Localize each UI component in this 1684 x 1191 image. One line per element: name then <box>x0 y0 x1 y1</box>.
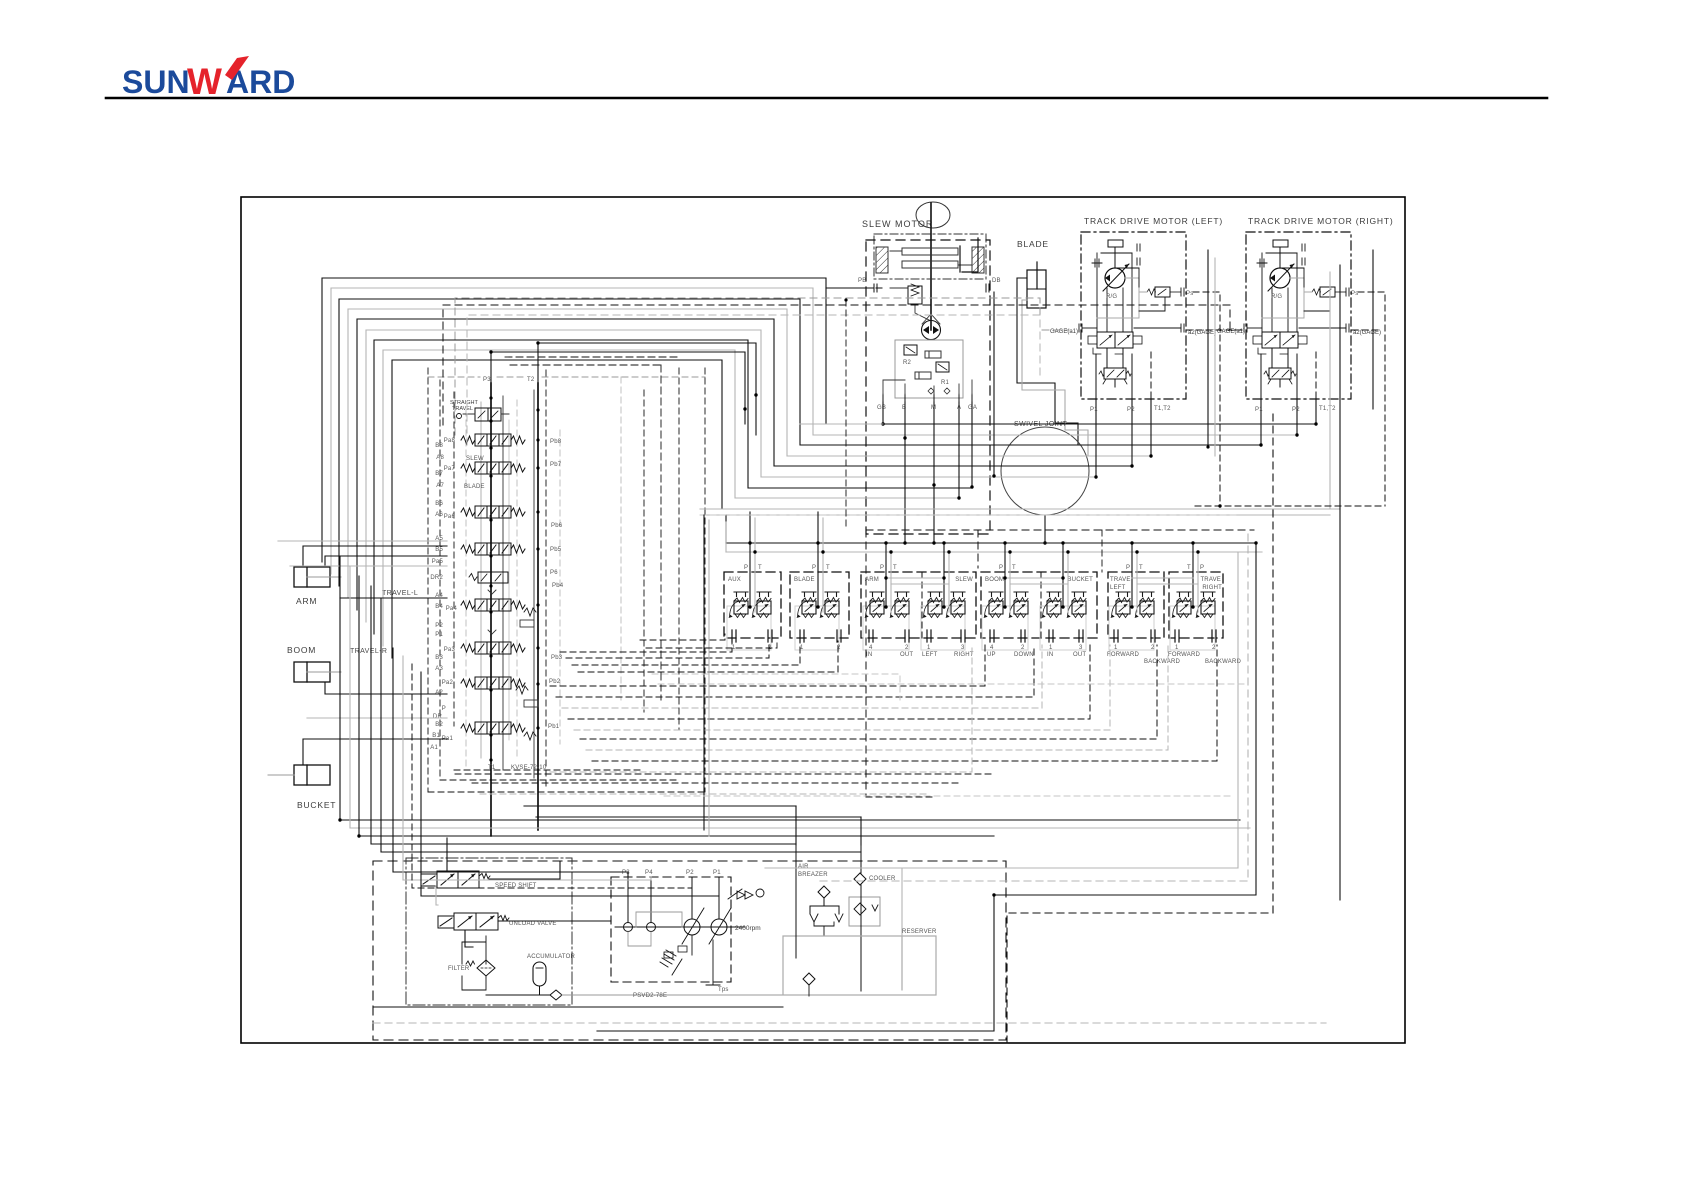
svg-text:a2(GAGE): a2(GAGE) <box>1188 330 1216 336</box>
pilot reducing valve <box>946 592 966 618</box>
wire <box>1009 552 1011 612</box>
junction <box>942 576 945 579</box>
port symbol <box>905 630 909 642</box>
wire <box>933 402 935 543</box>
wire <box>993 292 995 476</box>
pilot signal line (dashed wire) <box>977 530 979 568</box>
wire <box>891 583 949 585</box>
junction <box>1066 550 1069 553</box>
junction <box>1130 605 1133 608</box>
spool valve section <box>461 642 525 654</box>
svg-text:P1: P1 <box>435 632 443 638</box>
svg-text:P2: P2 <box>435 623 443 629</box>
blade cylinder <box>1027 270 1046 308</box>
wire <box>754 518 756 612</box>
junction <box>1218 504 1221 507</box>
svg-text:B5: B5 <box>435 547 443 553</box>
junction <box>1130 464 1133 467</box>
pilot signal line (dashed wire) <box>658 683 1248 685</box>
svg-text:Pa2: Pa2 <box>442 680 454 686</box>
svg-text:Ps: Ps <box>1351 291 1358 297</box>
svg-text:A7: A7 <box>436 483 444 489</box>
slew hydraulic motor <box>922 321 941 340</box>
svg-text:Pb8: Pb8 <box>550 439 562 445</box>
svg-text:TRAVE: TRAVE <box>1110 577 1131 583</box>
svg-text:SLEW: SLEW <box>955 577 973 583</box>
port symbol <box>961 630 965 642</box>
junction <box>947 550 950 553</box>
wire <box>325 682 447 694</box>
wire <box>446 838 448 871</box>
wire <box>366 330 1096 622</box>
svg-text:DOWN: DOWN <box>1014 652 1034 658</box>
pilot valve group ARM / SLEW <box>861 572 976 638</box>
svg-text:T2: T2 <box>527 377 535 383</box>
wire <box>958 402 960 498</box>
svg-text:T: T <box>1139 565 1143 571</box>
junction <box>753 550 756 553</box>
svg-text:Pb6: Pb6 <box>551 523 563 529</box>
svg-text:P6: P6 <box>550 570 558 576</box>
pilot signal line (dashed wire) <box>592 645 1217 761</box>
pump PSVD2-78E envelope <box>611 877 731 982</box>
pilot signal line (dashed wire) <box>574 645 1110 730</box>
svg-text:ACCUMULATOR: ACCUMULATOR <box>527 954 575 960</box>
svg-text:2: 2 <box>1151 645 1155 651</box>
wire <box>393 648 628 877</box>
svg-text:DR: DR <box>433 714 443 720</box>
wire <box>700 508 1340 510</box>
svg-text:Pa8: Pa8 <box>444 438 456 444</box>
svg-text:TRAVEL-L: TRAVEL-L <box>382 590 418 597</box>
svg-text:A8: A8 <box>436 455 444 461</box>
port symbol <box>732 630 736 642</box>
wire <box>472 782 961 784</box>
svg-text:Ps: Ps <box>1186 291 1193 297</box>
port symbol <box>837 630 841 642</box>
svg-text:2400rpm: 2400rpm <box>735 925 761 932</box>
wire <box>817 512 819 607</box>
junction <box>1254 541 1257 544</box>
svg-text:BOOM: BOOM <box>985 577 1004 583</box>
svg-text:P: P <box>812 565 816 571</box>
wire <box>303 739 447 765</box>
svg-text:P: P <box>1200 565 1204 571</box>
port symbol <box>1212 630 1216 642</box>
wire <box>726 542 1256 544</box>
svg-text:GB: GB <box>877 405 886 411</box>
wire <box>498 920 611 922</box>
svg-text:TRAVE: TRAVE <box>1200 577 1221 583</box>
svg-text:Pa5: Pa5 <box>432 559 444 565</box>
svg-text:P1: P1 <box>1090 407 1098 413</box>
valve block envelope (dashed) <box>453 392 455 726</box>
junction <box>489 350 492 353</box>
wire <box>725 515 727 543</box>
wire <box>1214 258 1216 456</box>
pilot signal line (dashed wire) <box>586 645 1168 750</box>
junction <box>1149 454 1152 457</box>
DR2 relief valve <box>478 572 508 583</box>
wire <box>383 350 959 646</box>
junction <box>816 605 819 608</box>
svg-text:SLEW MOTOR: SLEW MOTOR <box>862 219 933 229</box>
svg-text:Pa3: Pa3 <box>444 647 456 653</box>
svg-text:P2: P2 <box>1292 407 1300 413</box>
wire <box>348 309 1151 598</box>
wire <box>392 360 934 658</box>
pilot signal line (dashed wire) <box>550 645 985 686</box>
svg-text:2: 2 <box>1021 645 1025 651</box>
svg-text:FORWARD: FORWARD <box>1107 652 1140 658</box>
junction <box>1191 605 1194 608</box>
gear <box>902 248 958 255</box>
wire <box>1260 399 1262 445</box>
wire <box>403 656 651 880</box>
pilot bracket <box>960 238 978 272</box>
svg-text:PB: PB <box>858 278 866 284</box>
port symbol <box>1049 630 1053 642</box>
junction <box>957 496 960 499</box>
svg-text:BLADE: BLADE <box>794 577 815 583</box>
pilot reducing valve <box>1135 592 1155 618</box>
junction <box>1191 541 1194 544</box>
servo regulator <box>737 891 753 899</box>
wire <box>436 886 438 905</box>
svg-text:3: 3 <box>961 645 965 651</box>
port symbol <box>1079 630 1083 642</box>
pilot signal line (dashed wire) <box>412 664 692 888</box>
junction <box>1314 422 1317 425</box>
svg-text:ARM: ARM <box>865 577 879 583</box>
port symbol <box>990 630 994 642</box>
wire <box>374 340 972 634</box>
wire <box>1095 399 1097 477</box>
wire <box>1329 272 1331 509</box>
junction <box>1043 541 1046 544</box>
svg-text:2: 2 <box>905 645 909 651</box>
svg-text:BLADE: BLADE <box>464 484 485 490</box>
valve block envelope (dashed) <box>620 377 622 700</box>
pilot signal line (dashed wire) <box>1195 505 1385 507</box>
wire <box>1192 543 1194 607</box>
wire <box>1372 250 1374 409</box>
pilot signal line (dashed wire) <box>572 641 800 665</box>
junction <box>357 834 360 837</box>
brake release valve <box>908 286 922 304</box>
port symbol <box>1175 630 1179 642</box>
junction <box>743 407 746 410</box>
junction <box>748 541 751 544</box>
reservoir <box>783 936 936 995</box>
svg-text:RIGHT: RIGHT <box>1202 585 1222 591</box>
svg-text:BUCKET: BUCKET <box>297 800 336 810</box>
spool valve section <box>461 434 525 446</box>
internal wires <box>883 380 972 394</box>
junction <box>821 550 824 553</box>
wire <box>1044 515 1046 543</box>
junction <box>844 298 847 301</box>
port symbol <box>768 630 772 642</box>
svg-text:T: T <box>758 565 762 571</box>
spool valve section <box>461 599 525 611</box>
wire <box>1131 543 1133 607</box>
wire <box>1132 577 1193 579</box>
svg-text:OUT: OUT <box>1073 652 1086 658</box>
pilot signal line (dashed wire) <box>550 645 972 772</box>
track drive motor left unit <box>1079 232 1186 399</box>
valve block envelope (dashed) <box>439 380 441 780</box>
pilot signal line (dashed wire) <box>865 530 867 797</box>
pilot reducing valve <box>1172 592 1192 618</box>
svg-text:T: T <box>826 565 830 571</box>
wire <box>882 402 884 424</box>
wire blade to swivel <box>1022 300 1088 456</box>
pilot signal line (dashed wire) <box>443 305 1246 425</box>
pilot signal line (dashed wire) <box>556 645 1034 697</box>
wire <box>1137 583 1198 585</box>
pilot signal line (dashed wire) <box>866 529 1254 531</box>
svg-text:A6: A6 <box>435 512 443 518</box>
valve block envelope (dashed) <box>678 368 680 730</box>
check valve <box>550 990 562 1000</box>
svg-text:AIR: AIR <box>798 864 809 870</box>
speed shift solenoid valve <box>421 874 437 886</box>
svg-text:P: P <box>999 565 1003 571</box>
pilot supply envelope (dash-dot) <box>406 858 572 1005</box>
pilot signal line (dashed wire) <box>568 645 1090 719</box>
wire <box>359 576 994 836</box>
port symbol <box>1151 630 1155 642</box>
wire <box>971 402 973 487</box>
bearing (hatched) <box>972 247 984 273</box>
port symbol <box>1114 630 1118 642</box>
pilot reducing valve <box>1111 592 1131 618</box>
junction <box>942 541 945 544</box>
wire <box>1315 399 1317 424</box>
svg-text:1: 1 <box>732 645 736 651</box>
svg-text:1: 1 <box>1175 645 1179 651</box>
junction <box>992 893 995 896</box>
svg-text:SLEW: SLEW <box>466 456 484 462</box>
pilot signal line (dashed wire) <box>1007 410 1273 1043</box>
svg-text:AUX: AUX <box>728 577 741 583</box>
P3 supply rail <box>490 383 492 836</box>
wire <box>1004 543 1006 607</box>
svg-text:BOOM: BOOM <box>287 645 316 655</box>
arm cylinder <box>294 567 330 587</box>
junction <box>1008 550 1011 553</box>
check valve <box>915 372 931 379</box>
junction <box>884 605 887 608</box>
wire <box>489 861 560 879</box>
svg-text:DB: DB <box>992 278 1001 284</box>
svg-text:1: 1 <box>927 645 931 651</box>
junction <box>1003 541 1006 544</box>
pilot signal line (dashed wire) <box>820 530 1248 881</box>
pilot signal line (dashed wire) <box>373 1022 1326 1024</box>
svg-text:3: 3 <box>1079 645 1083 651</box>
spool valve section <box>461 677 525 689</box>
wire <box>307 717 447 719</box>
port symbol <box>1021 630 1025 642</box>
wire <box>524 805 796 807</box>
wire <box>538 343 756 435</box>
pilot signal line (dashed wire) <box>845 300 847 530</box>
wire <box>278 540 447 542</box>
svg-text:TRACK DRIVE MOTOR (RIGHT): TRACK DRIVE MOTOR (RIGHT) <box>1248 216 1393 226</box>
svg-text:A3: A3 <box>435 666 443 672</box>
pilot reducing valve <box>865 592 885 618</box>
wire <box>1010 583 1068 585</box>
pilot valve group BLADE <box>790 572 849 638</box>
junction <box>748 605 751 608</box>
junction <box>903 541 906 544</box>
svg-text:BLADE: BLADE <box>1017 239 1049 249</box>
wire <box>465 930 473 947</box>
svg-text:P1: P1 <box>713 870 721 876</box>
junction <box>1130 541 1133 544</box>
svg-text:Tps: Tps <box>718 987 729 993</box>
svg-text:UP: UP <box>987 652 996 658</box>
spool valve section <box>461 722 525 734</box>
svg-text:B1: B1 <box>432 733 440 739</box>
wire <box>1131 399 1133 466</box>
svg-text:T: T <box>1187 565 1191 571</box>
svg-text:P1: P1 <box>1255 407 1263 413</box>
svg-text:T: T <box>1012 565 1016 571</box>
svg-text:RESERVER: RESERVER <box>902 929 937 935</box>
wire <box>800 423 883 425</box>
svg-text:Pb2: Pb2 <box>549 679 561 685</box>
svg-text:RIGHT: RIGHT <box>954 652 974 658</box>
junction <box>754 393 757 396</box>
header rule <box>106 97 1547 100</box>
check valve <box>925 351 941 358</box>
pilot signal line (dashed wire) <box>1186 329 1246 331</box>
pilot signal line (dashed wire) <box>562 645 1042 708</box>
svg-text:B7: B7 <box>435 471 443 477</box>
slew motor envelope (dashed) <box>866 240 990 534</box>
junction <box>816 541 819 544</box>
wire <box>421 672 719 896</box>
pilot reducing valve <box>752 592 772 618</box>
svg-text:P2: P2 <box>686 870 694 876</box>
wire <box>455 773 994 775</box>
gear <box>902 261 958 268</box>
svg-text:PSVD2-78E: PSVD2-78E <box>633 993 667 999</box>
wire T-return drop <box>703 515 705 830</box>
T2 return rail <box>537 383 539 830</box>
valve block envelope (dashed) <box>704 368 706 792</box>
svg-text:FILTER: FILTER <box>448 966 470 972</box>
wire <box>536 816 861 818</box>
wire <box>322 278 1316 562</box>
valve block envelope (dashed) <box>545 370 547 790</box>
svg-text:T1: T1 <box>488 765 496 771</box>
junction <box>1061 605 1064 608</box>
wire <box>795 806 797 845</box>
svg-text:Pa6: Pa6 <box>444 514 456 520</box>
svg-text:Pb5: Pb5 <box>550 547 562 553</box>
svg-text:B4: B4 <box>435 604 443 610</box>
pilot signal line (dashed wire) <box>866 796 936 798</box>
junction <box>338 818 341 821</box>
wire <box>357 319 1132 610</box>
pilot signal line (dashed wire) <box>1358 292 1385 506</box>
pilot signal line (dashed wire) <box>455 298 1069 435</box>
pilot signal line (dashed wire) <box>560 641 732 652</box>
junction <box>1196 550 1199 553</box>
junction <box>536 341 539 344</box>
wire <box>339 299 1261 586</box>
valve block envelope (dashed) <box>643 390 645 712</box>
wire <box>325 556 447 567</box>
svg-text:LEFT: LEFT <box>922 652 938 658</box>
svg-text:P: P <box>880 565 884 571</box>
pilot valve group TRAVE LEFT <box>1108 572 1164 638</box>
junction <box>1259 443 1262 446</box>
spool valve section <box>461 506 525 518</box>
bearing (hatched) <box>876 247 888 273</box>
svg-text:IN: IN <box>866 652 872 658</box>
svg-text:P2: P2 <box>1127 407 1135 413</box>
svg-text:B6: B6 <box>435 501 443 507</box>
pilot valve group AUX <box>724 572 781 638</box>
svg-text:T1,T2: T1,T2 <box>1154 406 1171 412</box>
svg-text:Pb4: Pb4 <box>552 583 564 589</box>
pilot signal line (dashed wire) <box>580 645 1157 739</box>
pilot reducing valve <box>923 592 943 618</box>
wire <box>1197 552 1199 612</box>
wire <box>725 522 727 552</box>
svg-text:TRAVEL-R: TRAVEL-R <box>350 648 387 655</box>
wire blade to swivel <box>1017 278 1078 445</box>
track drive motor right unit <box>1244 232 1351 399</box>
pilot signal line (dashed wire) <box>1193 292 1220 506</box>
svg-text:Pb7: Pb7 <box>550 462 562 468</box>
pilot valve group TRAVE RIGHT <box>1169 572 1223 638</box>
piston pump P1 <box>711 919 727 935</box>
wire <box>822 518 824 612</box>
svg-text:FORWARD: FORWARD <box>1168 652 1201 658</box>
wire <box>350 566 1250 828</box>
anti-cavitation valves <box>928 388 950 394</box>
port symbol <box>800 630 804 642</box>
wire <box>491 352 745 424</box>
wire <box>890 552 892 612</box>
svg-text:P: P <box>744 565 748 571</box>
svg-text:B2: B2 <box>435 722 443 728</box>
pilot reducing valve <box>1067 592 1087 618</box>
pilot signal line (dashed wire) <box>646 641 777 648</box>
junction <box>1094 475 1097 478</box>
svg-text:KVSE-72-10: KVSE-72-10 <box>511 765 547 771</box>
pilot reducing valve <box>820 592 840 618</box>
wire T-return drop <box>708 520 710 836</box>
spool valve section <box>461 543 525 555</box>
pilot signal line (dashed wire) <box>652 674 900 700</box>
pilot signal line (dashed wire) <box>1352 329 1380 331</box>
wire <box>480 793 930 795</box>
svg-text:UNLOAD VALVE: UNLOAD VALVE <box>509 921 557 927</box>
svg-text:T: T <box>893 565 897 571</box>
wire <box>371 586 796 844</box>
junction <box>970 485 973 488</box>
junction <box>1135 550 1138 553</box>
svg-text:R/G: R/G <box>1106 294 1117 300</box>
wire <box>340 597 447 599</box>
